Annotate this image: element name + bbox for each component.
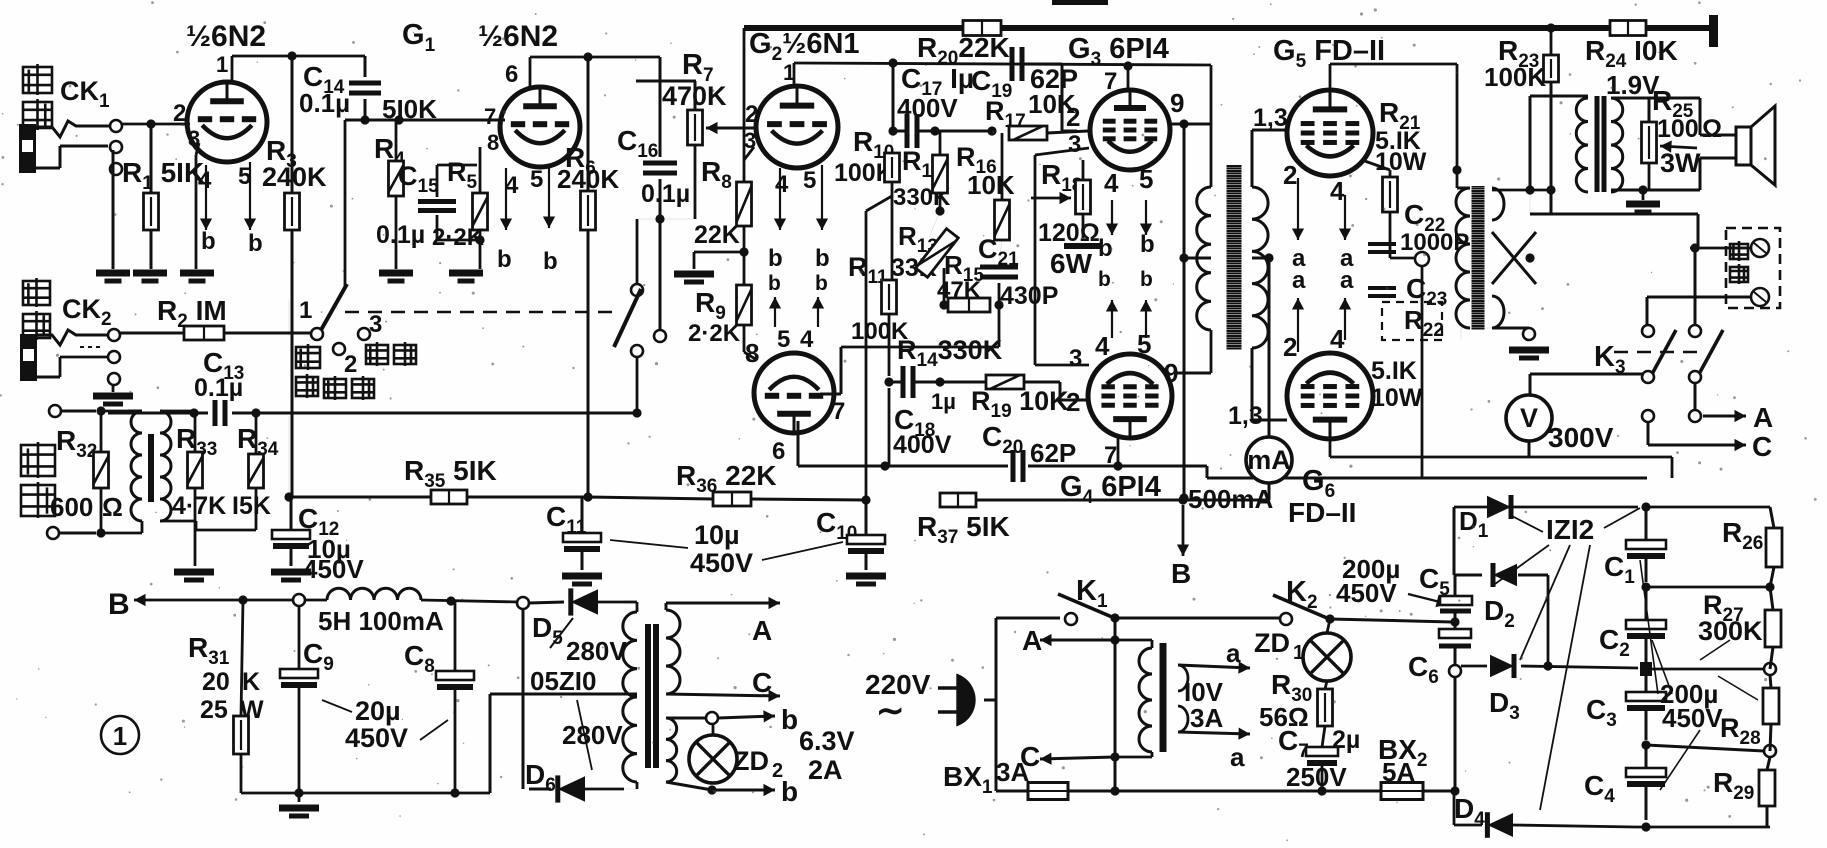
switch S1 contact 1 xyxy=(311,328,323,340)
wire from K2 to C5/C6 node xyxy=(1450,617,1459,626)
svg-text:240K: 240K xyxy=(262,162,327,192)
svg-text:B: B xyxy=(1171,558,1191,589)
svg-text:G2½6N1: G2½6N1 xyxy=(749,28,860,65)
wire column x866 to B+ rail xyxy=(865,211,868,500)
svg-text:7: 7 xyxy=(1104,68,1117,95)
node C3/C4 to R28/R29 xyxy=(1646,745,1764,751)
tube G4 6P14 (flipped) xyxy=(1088,354,1172,438)
C arrow from K1 xyxy=(1040,757,1115,759)
svg-text:7: 7 xyxy=(484,104,496,129)
svg-text:2: 2 xyxy=(344,351,357,378)
svg-text:4: 4 xyxy=(800,326,814,353)
cathode rail y457 xyxy=(1330,456,1672,459)
K3 arms xyxy=(1652,330,1676,374)
V1a cathode to ground xyxy=(196,143,199,155)
filament transformer primary xyxy=(1115,639,1152,642)
svg-text:2A: 2A xyxy=(808,755,843,785)
terminal circles xyxy=(1751,239,1769,257)
svg-text:8: 8 xyxy=(487,130,499,155)
svg-text:b: b xyxy=(1098,268,1111,291)
svg-text:300K: 300K xyxy=(1698,616,1763,646)
svg-text:C: C xyxy=(752,667,772,698)
svg-text:b: b xyxy=(768,272,781,295)
svg-text:b: b xyxy=(781,704,798,735)
V meter wire xyxy=(1647,374,1649,383)
wires line input box xyxy=(61,410,96,413)
svg-text:22K: 22K xyxy=(694,221,740,249)
power transformer HV winding xyxy=(624,601,637,604)
svg-text:∼: ∼ xyxy=(876,692,905,730)
mains plug xyxy=(958,676,974,724)
svg-text:1,3: 1,3 xyxy=(1253,104,1288,132)
svg-text:1: 1 xyxy=(299,297,312,324)
tube G3 6P14 xyxy=(1090,90,1170,170)
svg-text:5: 5 xyxy=(1139,164,1153,194)
G3 grid3 stub to box xyxy=(1035,148,1089,155)
terminal circles CK1 xyxy=(110,120,122,132)
svg-text:450V: 450V xyxy=(345,723,408,753)
svg-text:250V: 250V xyxy=(1286,762,1347,792)
G5 plate stem to top wire xyxy=(1329,64,1332,90)
C5 C6 column xyxy=(1454,575,1457,596)
C22 C23 column xyxy=(1421,259,1424,478)
svg-text:120Ω: 120Ω xyxy=(1038,219,1100,247)
bottom rail of T1 network + ground xyxy=(195,529,256,532)
switch labels pickup-line CJK xyxy=(295,344,321,370)
svg-text:100: 100 xyxy=(1657,115,1699,143)
svg-text:2: 2 xyxy=(745,101,758,128)
phase cross X xyxy=(1492,232,1536,284)
A arrow xyxy=(666,602,780,605)
svg-text:Ω: Ω xyxy=(102,492,123,522)
wire R1 drop xyxy=(150,124,153,193)
svg-text:B: B xyxy=(108,588,130,621)
svg-text:9: 9 xyxy=(1170,88,1184,118)
svg-text:Ω: Ω xyxy=(1702,115,1722,143)
secondary b winding 6.3V xyxy=(666,718,677,782)
top rect rail y507 xyxy=(1454,506,1638,509)
K1 switch xyxy=(996,617,1060,620)
svg-text:4: 4 xyxy=(1330,176,1345,206)
svg-text:b: b xyxy=(201,228,216,255)
svg-text:G3 6PI4: G3 6PI4 xyxy=(1068,33,1169,70)
ground stub R8/R9 xyxy=(694,251,744,254)
diode D2 branch xyxy=(1455,574,1482,577)
svg-text:300V: 300V xyxy=(1548,422,1614,453)
svg-text:1: 1 xyxy=(113,721,127,751)
secondary centre tap to mA meter xyxy=(1252,257,1269,260)
T1 secondary wires xyxy=(160,410,196,413)
terminal wires xyxy=(1690,247,1751,250)
output transformer primary coil xyxy=(1456,188,1470,328)
svg-text:b: b xyxy=(768,245,783,272)
secondary bottom to G6 grid xyxy=(1251,348,1254,420)
svg-text:7: 7 xyxy=(1104,442,1117,469)
svg-text:b: b xyxy=(815,272,828,295)
lower terminals to A C xyxy=(1642,410,1654,422)
plug to K1 riser xyxy=(984,699,996,702)
sec top wires xyxy=(1492,189,1551,192)
tube V1b half 6N2 xyxy=(500,87,580,167)
svg-text:3: 3 xyxy=(1069,345,1082,372)
lower rail y466 xyxy=(798,465,1008,468)
svg-text:25: 25 xyxy=(200,696,228,724)
switch K3 contacts xyxy=(1642,325,1654,337)
svg-text:a: a xyxy=(1340,267,1354,294)
dashed mechanical link between switches xyxy=(345,311,613,313)
resistor R20 22K on top rail xyxy=(963,21,1001,36)
svg-text:a: a xyxy=(1292,267,1306,294)
lamp ZD1 xyxy=(1303,633,1351,681)
ground CK2 xyxy=(112,385,115,392)
x1184 plate-supply column xyxy=(1183,124,1186,498)
svg-text:4: 4 xyxy=(1095,331,1110,361)
input transformer T1 xyxy=(131,411,142,521)
switch S1 arm xyxy=(321,284,347,330)
elbow to output feed y478 xyxy=(1206,466,1209,478)
svg-text:2: 2 xyxy=(1283,160,1297,190)
svg-text:b: b xyxy=(815,245,830,272)
G6 heater arrows up xyxy=(1297,298,1299,352)
svg-text:1: 1 xyxy=(216,52,228,77)
G4 plate stem down xyxy=(1117,438,1120,466)
G2a cathode to R8 xyxy=(744,147,754,160)
capacitor C5 xyxy=(1440,596,1472,605)
long vertical from C14 junction down (x289) xyxy=(288,300,290,336)
CK2 terminals xyxy=(108,329,120,341)
svg-text:1,3: 1,3 xyxy=(1228,402,1263,430)
b arrows xyxy=(718,716,775,718)
svg-text:450V: 450V xyxy=(1336,578,1397,608)
secondary A winding xyxy=(666,610,680,694)
switch S1 contact 2 xyxy=(333,343,345,355)
feedback box with R18 xyxy=(1034,155,1037,365)
svg-text:5.IK: 5.IK xyxy=(1371,357,1417,385)
A arrow from K1 xyxy=(1114,618,1117,640)
svg-text:b: b xyxy=(1140,268,1153,291)
svg-text:450V: 450V xyxy=(1662,703,1723,733)
svg-text:3: 3 xyxy=(369,311,382,338)
svg-text:2·2K: 2·2K xyxy=(688,320,741,347)
secondary winding upper xyxy=(1492,188,1504,220)
G4 heater arrows up xyxy=(1111,300,1113,338)
svg-text:a: a xyxy=(1226,638,1241,668)
svg-text:10W: 10W xyxy=(1375,148,1427,176)
line-input wire through C13 xyxy=(108,412,208,415)
switch riser to grid node xyxy=(344,120,347,286)
svg-text:3A: 3A xyxy=(996,757,1029,787)
svg-text:6W: 6W xyxy=(1050,248,1093,279)
G3 pin9 wire xyxy=(1170,123,1211,126)
svg-text:450V: 450V xyxy=(690,548,753,578)
svg-text:4: 4 xyxy=(1104,168,1119,198)
power transformer core xyxy=(645,624,651,768)
svg-text:ZD: ZD xyxy=(733,746,769,776)
svg-text:2: 2 xyxy=(1066,387,1080,417)
R22 dashed box xyxy=(1382,302,1442,340)
transformer core hatched xyxy=(1227,165,1242,350)
svg-text:62P: 62P xyxy=(1030,438,1076,468)
circled 1 figure number xyxy=(101,716,139,754)
switch S1 contact 3 xyxy=(358,328,370,340)
R11 column to lower rail xyxy=(888,388,891,466)
mid rail to R27/R28 junction xyxy=(1638,667,1646,669)
HV centre tap to bottom rail xyxy=(490,693,637,696)
svg-text:1: 1 xyxy=(1293,642,1304,664)
G2a plate wire to y63 rail xyxy=(793,63,796,86)
svg-text:0.1µ: 0.1µ xyxy=(299,88,350,118)
label mic CJK xyxy=(22,64,53,95)
tube G2a 6N1 top xyxy=(756,86,838,168)
K2 switch xyxy=(1280,613,1292,625)
junction x289 at B+ rail xyxy=(288,416,290,497)
svg-text:4: 4 xyxy=(775,171,789,198)
svg-text:6: 6 xyxy=(505,61,518,88)
svg-text:2: 2 xyxy=(1283,332,1297,362)
resistor R3 240K plate load xyxy=(291,56,294,193)
svg-text:5: 5 xyxy=(1137,329,1151,359)
rectifier node vertical x523 xyxy=(522,603,525,789)
speaker xyxy=(1736,127,1751,165)
svg-text:1µ: 1µ xyxy=(931,389,956,414)
speaker matching transformer xyxy=(1530,95,1588,98)
svg-text:0.1µ: 0.1µ xyxy=(194,374,243,402)
svg-text:4: 4 xyxy=(1330,324,1345,354)
V meter xyxy=(1506,395,1552,441)
tube G2b 6N1 bottom (flipped) xyxy=(754,353,834,433)
svg-text:5: 5 xyxy=(777,326,790,353)
svg-text:6: 6 xyxy=(772,438,785,465)
line CJK label xyxy=(20,442,56,478)
secondary 10V 3A with arrows xyxy=(1178,665,1188,691)
svg-text:A: A xyxy=(752,615,772,646)
wire from terminal to K3 xyxy=(1647,296,1724,299)
svg-text:4·7K: 4·7K xyxy=(172,492,226,520)
G2b heater arrows up xyxy=(774,297,776,327)
choke 5H 100mA xyxy=(327,588,421,600)
mid node diamond xyxy=(1640,662,1652,676)
svg-text:5: 5 xyxy=(530,166,543,193)
svg-text:b: b xyxy=(1140,231,1155,258)
switch S2 arm and contacts xyxy=(631,284,643,296)
K3 dashed link xyxy=(1614,351,1700,353)
V1a plate wire up to rail xyxy=(231,56,234,82)
wire CK2 to R2 xyxy=(120,332,184,335)
ground under jack xyxy=(112,150,115,269)
svg-text:mA: mA xyxy=(1247,445,1291,475)
vertical from y64 to output transformer xyxy=(1456,64,1459,188)
G2b cathode pin6 down to y466 rail xyxy=(797,421,800,466)
ground R1 xyxy=(133,270,167,277)
svg-text:6.3V: 6.3V xyxy=(799,726,855,756)
svg-text:400V: 400V xyxy=(893,431,952,459)
wire from X node to K3 row xyxy=(1550,190,1553,214)
svg-text:8: 8 xyxy=(745,338,759,368)
svg-text:10W: 10W xyxy=(1371,384,1423,412)
svg-text:G4 6PI4: G4 6PI4 xyxy=(1060,471,1161,508)
svg-text:100K: 100K xyxy=(1484,62,1546,92)
interstage transformer primary xyxy=(1210,65,1213,187)
diode D3 branch xyxy=(1461,665,1487,668)
svg-text:½6N2: ½6N2 xyxy=(186,20,266,53)
svg-text:ZD: ZD xyxy=(1254,628,1290,658)
capacitor C6 xyxy=(1439,629,1471,638)
interstage secondary xyxy=(1252,187,1268,348)
svg-text:600: 600 xyxy=(50,492,93,522)
svg-text:430P: 430P xyxy=(1000,282,1058,310)
wire C1/C2 node to R26/R27 xyxy=(1646,586,1770,589)
svg-text:b: b xyxy=(781,776,798,807)
svg-text:2: 2 xyxy=(173,100,186,127)
bottom junction and ground xyxy=(1492,327,1529,330)
bottom rect rail xyxy=(1635,826,1770,829)
top rail y56 to C14 xyxy=(232,55,365,58)
smoothing column C1..C4 xyxy=(1641,502,1650,511)
output terminal box xyxy=(1726,228,1780,308)
svg-text:A: A xyxy=(1022,625,1042,656)
sec bottom wire to ground xyxy=(1461,327,1492,329)
C arrow xyxy=(666,694,780,696)
speaker winding wires xyxy=(1611,97,1649,100)
svg-text:3A: 3A xyxy=(1190,703,1223,733)
inner box lines rectifier xyxy=(1547,574,1549,576)
output transformer core xyxy=(1472,186,1485,330)
svg-text:a: a xyxy=(1230,742,1245,772)
svg-text:C: C xyxy=(1752,431,1772,462)
G2b grid wire pin7 xyxy=(820,393,841,396)
B rail y600 xyxy=(243,599,293,602)
svg-text:2: 2 xyxy=(772,760,783,782)
line input terminals xyxy=(49,405,61,417)
svg-text:20µ: 20µ xyxy=(355,696,401,726)
R7 bottom wire with arrow from G2 grid xyxy=(694,131,696,145)
tube G6 FD-11 (flipped) xyxy=(1287,353,1373,439)
svg-text:10K: 10K xyxy=(967,170,1015,200)
svg-text:IZI2: IZI2 xyxy=(1546,514,1594,545)
R3 long drop to B+ rail xyxy=(291,230,294,497)
ground PSU bottom xyxy=(298,793,301,802)
svg-text:b: b xyxy=(248,230,263,257)
svg-text:20: 20 xyxy=(202,668,230,696)
svg-text:5: 5 xyxy=(803,167,816,194)
label phono CJK xyxy=(22,278,51,307)
svg-text:500mA: 500mA xyxy=(1188,484,1273,514)
svg-text:3: 3 xyxy=(1068,131,1081,158)
svg-text:450V: 450V xyxy=(303,554,364,584)
resistor R1 51K xyxy=(144,193,159,230)
mA meter xyxy=(1246,437,1292,483)
top B+ thick rail xyxy=(744,25,1711,31)
wire y131 from G2a grid row xyxy=(892,63,895,131)
bottom mains rail xyxy=(996,790,1028,793)
B arrow output left xyxy=(134,599,243,602)
svg-text:3W: 3W xyxy=(1660,148,1701,178)
svg-text:K: K xyxy=(242,668,260,696)
svg-text:b: b xyxy=(497,246,512,273)
bottom rail PSU xyxy=(241,792,490,795)
svg-text:V: V xyxy=(1520,403,1538,433)
G5 cathode to R21 xyxy=(1362,160,1390,170)
filament transformer core xyxy=(1160,643,1167,752)
R9 to G2b pin8 xyxy=(743,325,746,352)
jack CK2 (phono input) xyxy=(20,334,37,381)
svg-text:A: A xyxy=(1753,402,1773,433)
wire CK1 to V1a grid xyxy=(122,123,190,126)
svg-text:7: 7 xyxy=(832,398,845,425)
svg-text:FD–II: FD–II xyxy=(1288,497,1356,528)
lamp ZD2 xyxy=(689,735,737,783)
jack CK1 (microphone input) xyxy=(19,124,36,173)
B+ rail y497 xyxy=(289,496,431,499)
tube V1a half 6N2 xyxy=(187,82,267,162)
V1b plate wire to top rail xyxy=(529,57,532,87)
tube G5 FD-11 xyxy=(1287,90,1373,176)
secondary top to G5 grid xyxy=(1251,130,1254,187)
svg-text:I5K: I5K xyxy=(232,492,271,520)
svg-text:3: 3 xyxy=(744,128,756,153)
svg-text:2: 2 xyxy=(1066,102,1080,132)
svg-text:0.1µ: 0.1µ xyxy=(641,180,690,208)
svg-text:5H 100mA: 5H 100mA xyxy=(318,606,444,636)
resistor R24 10K on top rail xyxy=(1610,21,1646,36)
G2 box left edge xyxy=(743,28,746,182)
ground under R5 xyxy=(449,270,483,277)
capacitor C14 0.1u coupling xyxy=(364,56,367,77)
primary centre tap xyxy=(1184,257,1211,260)
svg-text:10µ: 10µ xyxy=(694,520,740,550)
speaker wires xyxy=(1649,97,1700,100)
svg-text:05ZI0: 05ZI0 xyxy=(530,666,597,696)
svg-text:b: b xyxy=(543,248,558,275)
rail end bar xyxy=(1709,15,1718,47)
scan artifact top edge xyxy=(1052,0,1108,5)
svg-text:½6N2: ½6N2 xyxy=(478,20,558,53)
ground under R4 xyxy=(379,270,413,277)
G6 plate stem down to y457 xyxy=(1329,440,1332,457)
svg-text:280V: 280V xyxy=(562,720,623,750)
